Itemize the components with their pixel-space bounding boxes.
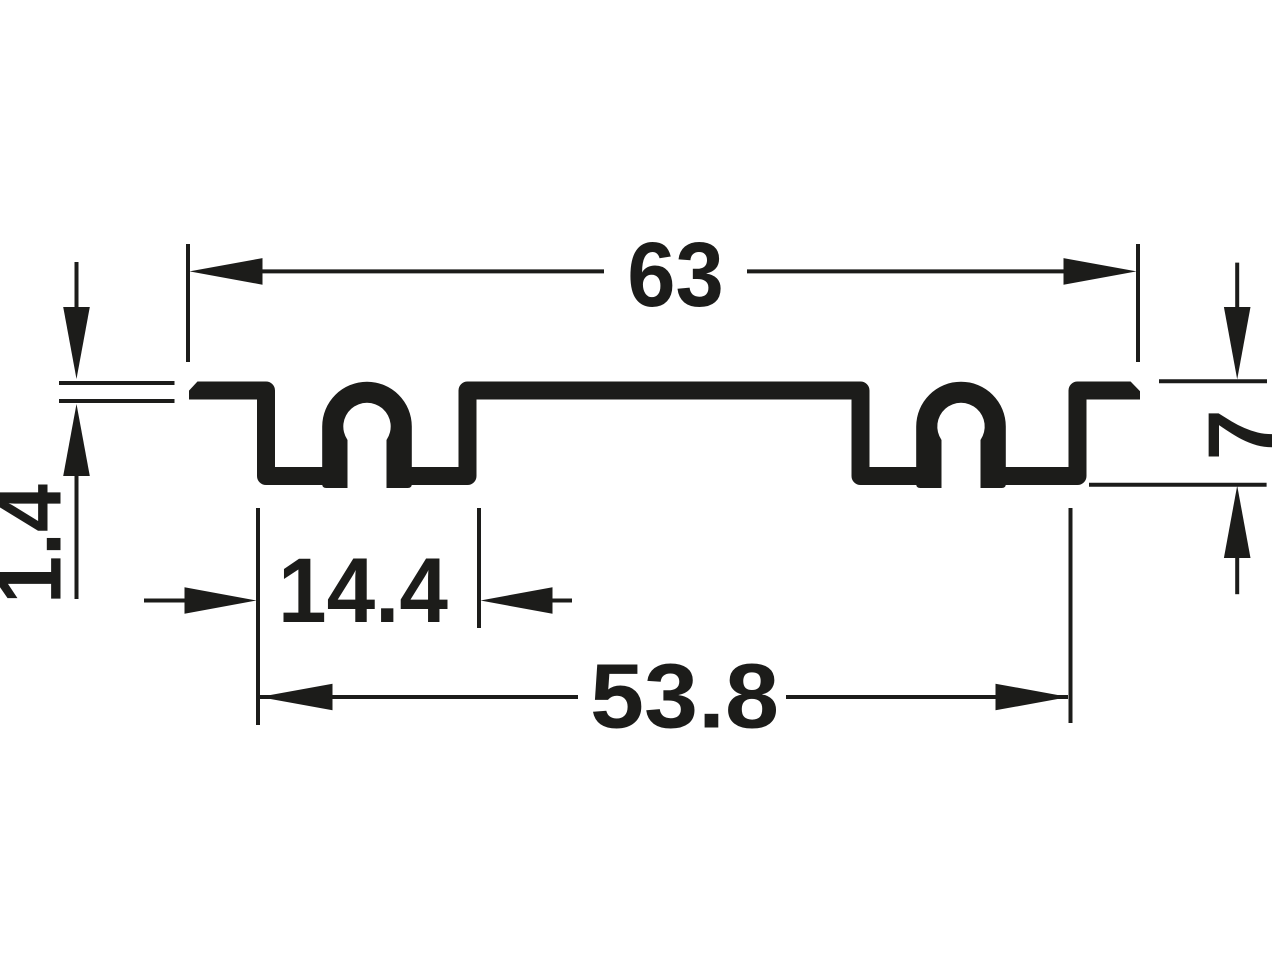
svg-text:14.4: 14.4 xyxy=(278,540,448,642)
dim 1.4 arrowhead up xyxy=(63,404,90,476)
dim 7 arrowhead up xyxy=(1224,486,1251,558)
dim 7 extension line top xyxy=(1159,379,1267,383)
dim 1.4 leader line upper xyxy=(75,262,79,309)
dim 63 line left segment xyxy=(260,269,604,273)
left end chamfer cut xyxy=(188,380,199,392)
profile wall right: floor, right channel wall, right flange xyxy=(990,391,1140,477)
dim 1.4 extension line bottom xyxy=(59,399,175,403)
dim 7 leader line lower xyxy=(1235,558,1239,594)
dim 53.8 arrowhead left xyxy=(260,684,333,711)
dim 1.4 extension line top xyxy=(59,381,175,385)
svg-text:63: 63 xyxy=(627,224,724,326)
keyhole boss right (omega bump) xyxy=(916,382,1006,488)
dim 63 arrowhead left xyxy=(190,258,263,285)
svg-text:53.8: 53.8 xyxy=(590,646,779,748)
dim 63 line right segment xyxy=(747,269,1065,273)
profile wall left flange + left channel wall + floor segment xyxy=(189,391,339,477)
keyhole boss left (omega bump) xyxy=(322,382,412,488)
dim 14.4 arrowhead left xyxy=(185,587,257,614)
dim 63 extension line left xyxy=(186,244,190,362)
dim 63 extension line right xyxy=(1136,244,1140,362)
dim 53.8 line left segment xyxy=(259,695,578,699)
dim 7 extension line bottom xyxy=(1089,483,1267,487)
dim 53.8 arrowhead right xyxy=(996,684,1069,711)
dim 7 leader line upper xyxy=(1235,263,1239,307)
dim 14.4 extension line left xyxy=(256,508,260,725)
dim 1.4 leader line lower xyxy=(75,476,79,599)
dim 7 arrowhead down xyxy=(1224,307,1251,379)
dim 14.4 leader line right xyxy=(553,599,573,603)
dim 14.4 extension line right xyxy=(477,508,481,628)
svg-text:7: 7 xyxy=(1190,409,1280,460)
dim 14.4 leader line left xyxy=(144,599,188,603)
dim 53.8 line right segment xyxy=(786,695,1068,699)
dim 14.4 arrowhead right xyxy=(481,587,553,614)
dim 53.8 extension line right xyxy=(1069,508,1073,723)
right end chamfer cut xyxy=(1130,380,1142,392)
dim 63 arrowhead right xyxy=(1064,258,1137,285)
profile wall center: floor, plateau, floor segment xyxy=(396,391,933,477)
dim 1.4 arrowhead down xyxy=(63,307,90,379)
svg-text:1.4: 1.4 xyxy=(0,484,81,604)
